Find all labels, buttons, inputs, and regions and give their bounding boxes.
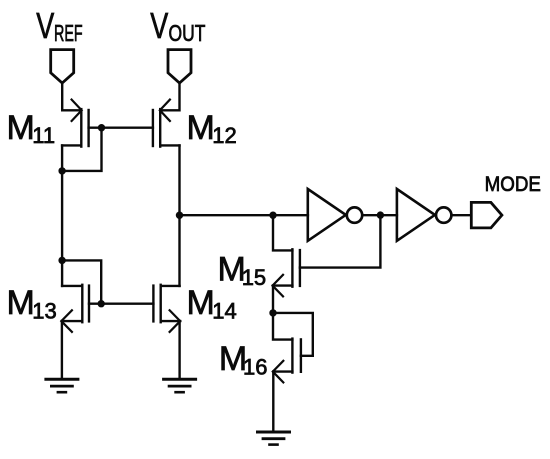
node M13 tie junction: [58, 257, 65, 264]
wire M11 drain to M13 drain: [61, 145, 63, 286]
label M12: [187, 109, 237, 148]
wire inverter2 output to MODE pin: [452, 214, 472, 216]
wire output net to inverter 1 input: [180, 214, 308, 216]
pin VREF: [51, 50, 74, 83]
svg-text:13: 13: [32, 299, 56, 324]
svg-text:V: V: [150, 5, 169, 46]
svg-text:11: 11: [32, 123, 55, 148]
wire M13 gate to M14 gate: [89, 303, 153, 305]
label VOUT: [150, 5, 205, 47]
svg-text:M: M: [7, 284, 35, 322]
node inverter1 output junction: [377, 211, 384, 218]
transistor M11 (PMOS): [62, 100, 89, 147]
wire M15 gate feedback from inverter1 output: [300, 215, 381, 268]
wire VREF pin to M11 source: [62, 83, 81, 111]
pin VOUT: [168, 50, 191, 83]
node output junction at M12/M14: [176, 212, 183, 219]
wire VOUT pin to M12 source: [160, 83, 179, 111]
transistor M15 (NMOS): [273, 249, 300, 296]
wire M12 drain to output node and M14 drain: [178, 145, 180, 286]
label M11: [7, 109, 56, 148]
wire M13 gate-drain tie: [62, 260, 101, 303]
transistor M16 (NMOS): [273, 339, 301, 383]
wire M11 gate-drain tie: [62, 128, 101, 171]
node M15 branch junction: [269, 212, 276, 219]
svg-text:16: 16: [243, 354, 267, 379]
ground below M16: [258, 432, 290, 445]
svg-text:REF: REF: [54, 21, 83, 48]
node M11 drain tie junction: [58, 167, 65, 174]
svg-text:M: M: [187, 284, 215, 322]
label M14: [187, 284, 237, 324]
wire M11 gate to M12 gate: [89, 126, 153, 128]
svg-text:15: 15: [242, 265, 266, 290]
wire M13 source to ground: [61, 321, 63, 379]
node M13 gate junction: [98, 300, 105, 307]
transistor M12 (PMOS): [153, 100, 180, 147]
node M15 source / M16 drain junction: [269, 309, 276, 316]
svg-text:M: M: [187, 109, 215, 147]
inverter U1: [308, 189, 362, 241]
svg-text:MODE: MODE: [485, 173, 541, 196]
wire output node down to M15 drain: [273, 215, 292, 250]
wire M14 source to ground: [178, 321, 180, 379]
transistor M14 (NMOS): [153, 285, 180, 332]
svg-text:OUT: OUT: [169, 22, 206, 47]
label VREF: [36, 5, 82, 47]
pin MODE: [471, 202, 502, 228]
svg-text:14: 14: [212, 299, 236, 324]
svg-text:M: M: [7, 109, 35, 147]
svg-text:12: 12: [212, 123, 236, 148]
wire inverter1 output to inverter2 input: [363, 214, 397, 216]
inverter U2: [397, 189, 452, 241]
wire M16 gate-drain tie: [273, 313, 313, 356]
label M16: [219, 340, 268, 380]
ground below M14: [164, 379, 196, 392]
label M15: [218, 250, 267, 290]
transistor M13 (NMOS): [61, 285, 89, 332]
wire M16 source to ground: [272, 372, 274, 432]
svg-text:V: V: [36, 5, 55, 46]
node M11 gate junction: [98, 124, 105, 131]
ground below M13: [46, 379, 78, 392]
wire M16 drain from node: [273, 313, 292, 340]
label M13: [7, 284, 57, 324]
wire M15 source down to node: [272, 286, 274, 313]
